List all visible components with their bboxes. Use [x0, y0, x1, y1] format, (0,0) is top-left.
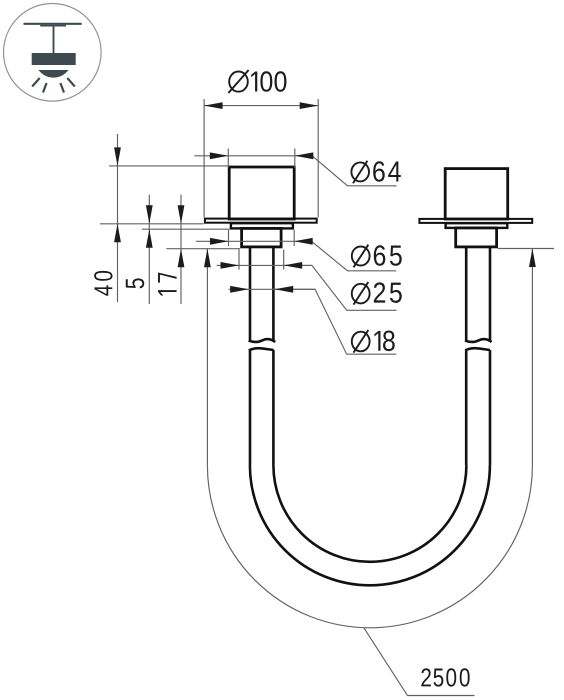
label O25 digits — [374, 282, 402, 303]
right tube lower right wall — [489, 350, 492, 465]
dim Ø18 right tail and leader — [275, 289, 397, 354]
icon ceiling line — [24, 23, 82, 25]
right tube upper right wall — [489, 247, 492, 341]
U-bend outer wall arc — [250, 465, 490, 585]
dim Ø65 left tail line — [196, 240, 313, 242]
dim Ø25 left extension line — [238, 250, 240, 270]
dim 2500 right extension line (collar bottom) — [498, 248, 554, 250]
dim Ø64 right arrow — [295, 152, 314, 159]
right tube break upper squiggle — [465, 339, 492, 342]
right canopy body — [445, 169, 508, 219]
label Ø18 diameter symbol — [352, 332, 370, 352]
dim Ø25 right tail and leader — [284, 265, 397, 310]
label O64 digits — [373, 161, 401, 182]
left tube upper left wall — [249, 247, 252, 341]
dim Ø100 left arrow — [204, 102, 223, 109]
right ceiling flange — [419, 219, 532, 223]
right tube lower left wall — [465, 350, 468, 465]
icon light ray 4 — [67, 78, 75, 87]
right collar — [456, 228, 497, 247]
dim 2500 right vertical dimension line — [531, 249, 533, 465]
dim 17 bottom extension line (collar bottom) — [166, 248, 240, 250]
dim Ø25 right arrow — [284, 262, 303, 269]
dim Ø18 left arrow — [230, 286, 249, 293]
dim Ø65 right arrow — [294, 238, 313, 245]
left tube lower left wall — [249, 350, 252, 465]
left tube upper right wall — [272, 247, 275, 341]
dim 2500 curved dimension line — [207, 465, 532, 628]
label O65 digits — [374, 245, 402, 266]
dim 5 bottom extension line (step bottom) — [142, 228, 230, 230]
dim 5 top arrow — [146, 205, 153, 224]
dim Ø25 left tail line — [217, 264, 312, 266]
icon light ray 2 — [43, 83, 47, 93]
icon mounting plate — [40, 25, 66, 27]
label Ø100 diameter symbol — [229, 72, 248, 92]
icon lamp body — [32, 53, 76, 65]
dim Ø65 left extension line — [228, 230, 230, 246]
right flange step ring — [446, 223, 508, 228]
dim Ø25 right extension line — [283, 250, 285, 270]
label O100 digits — [251, 71, 286, 92]
dim Ø64 leader to label — [312, 156, 396, 186]
label 5 (rotated) — [126, 278, 144, 288]
dim Ø18 right arrow — [275, 286, 294, 293]
dim 2500 left arrow — [204, 249, 211, 268]
label Ø25 diameter symbol — [352, 284, 370, 304]
dim Ø65 right extension line — [293, 230, 295, 246]
ceiling-mount icon circle — [4, 4, 102, 102]
label 40 (rotated) — [94, 271, 112, 296]
dim Ø100 right arrow — [300, 102, 319, 109]
label 17 (rotated) — [158, 273, 177, 296]
right tube break lower squiggle — [465, 348, 490, 350]
dim Ø65 left arrow — [210, 238, 229, 245]
dim 17 top arrow — [178, 205, 185, 224]
dim 17 vertical dimension line — [180, 195, 182, 304]
left ceiling flange — [205, 219, 317, 223]
dim 5 vertical dimension line — [148, 195, 150, 304]
dim Ø18 left tail line — [229, 288, 316, 290]
dim Ø64 left extension line — [227, 149, 229, 168]
icon lamp dome — [39, 70, 69, 78]
dim 40 top extension line (body top) — [109, 165, 228, 167]
dim 2500 right arrow — [529, 249, 536, 268]
right tube upper left wall — [465, 247, 468, 341]
left flange step ring — [231, 223, 293, 228]
left tube break upper squiggle — [249, 339, 276, 342]
left collar — [242, 228, 282, 247]
dim Ø64 right extension line — [294, 149, 296, 168]
dim Ø64 left arrow — [210, 152, 229, 159]
dim 2500 leader to label — [364, 628, 475, 696]
dim Ø100 left extension line — [203, 99, 205, 217]
label Ø64 diameter symbol — [351, 162, 369, 181]
dim Ø64 left tail line — [194, 155, 313, 157]
icon stem — [53, 26, 55, 53]
dim 40 bottom arrow — [114, 224, 121, 243]
dim Ø100 right extension line — [317, 99, 319, 217]
label Ø65 diameter symbol — [352, 247, 370, 266]
icon light ray 3 — [60, 83, 64, 93]
dim Ø65 leader to label — [312, 241, 397, 270]
label O18 digits — [374, 331, 394, 352]
dim Ø25 left arrow — [221, 262, 240, 269]
shared extension line at flange bottom — [100, 223, 204, 225]
left canopy body — [229, 167, 294, 219]
dim 17 bottom arrow — [178, 249, 185, 268]
dim 40 vertical dimension line — [117, 134, 119, 302]
dim 5 bottom arrow — [146, 229, 153, 248]
label 2500 digits — [421, 668, 469, 686]
icon light ray 1 — [32, 78, 40, 87]
dim 2500 left vertical dimension line — [206, 249, 208, 466]
left tube lower right wall — [272, 350, 275, 465]
U-bend inner wall arc — [273, 465, 466, 562]
dim 40 top arrow — [114, 147, 121, 166]
left tube break lower squiggle — [249, 348, 274, 350]
dim Ø100 dimension line — [204, 105, 318, 107]
